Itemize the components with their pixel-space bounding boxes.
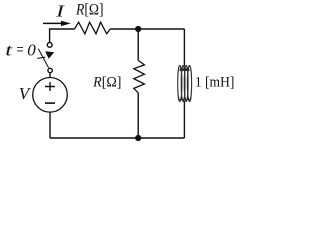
- current arrow I shaft: [43, 22, 63, 24]
- inductor L1 coil: [178, 66, 192, 102]
- bottom wire: [50, 137, 184, 139]
- wire R1 to top-right corner: [110, 28, 184, 30]
- switch S1 bottom terminal: [48, 68, 52, 72]
- current arrow I head: [61, 21, 71, 26]
- switch closing arrow shaft: [37, 57, 45, 58]
- switch S1 top terminal: [47, 43, 52, 48]
- wire middle branch upper: [137, 29, 139, 60]
- wire right branch upper: [183, 29, 185, 67]
- svg-text:t: t: [5, 40, 12, 59]
- wire switch to V source: [49, 73, 51, 78]
- wire middle branch lower: [137, 93, 139, 138]
- resistor R1 (top, zigzag): [75, 22, 111, 34]
- wire top-left corner to switch: [50, 29, 75, 43]
- svg-text:1 [mH]: 1 [mH]: [195, 74, 235, 90]
- svg-text:R[Ω]: R[Ω]: [75, 1, 103, 18]
- svg-text:I: I: [55, 1, 66, 20]
- voltage source minus sign: [45, 102, 55, 104]
- switch S1 blade: [38, 49, 48, 68]
- voltage source V1 circle: [33, 78, 68, 113]
- wire V source to bottom wire: [49, 112, 51, 138]
- inductor coil bottom scallops: [178, 98, 191, 101]
- svg-text:R[Ω]: R[Ω]: [92, 74, 121, 90]
- voltage source plus sign: [45, 82, 55, 91]
- resistor R2 (middle, vertical zigzag): [134, 60, 145, 92]
- junction node top: [135, 26, 141, 32]
- junction node bottom: [135, 135, 141, 141]
- svg-text:0: 0: [27, 41, 36, 60]
- wire right branch lower: [183, 101, 185, 138]
- svg-text:V: V: [19, 84, 31, 103]
- svg-text:=: =: [17, 40, 24, 59]
- inductor coil top tips: [180, 68, 189, 71]
- switch closing arrow head: [45, 51, 54, 59]
